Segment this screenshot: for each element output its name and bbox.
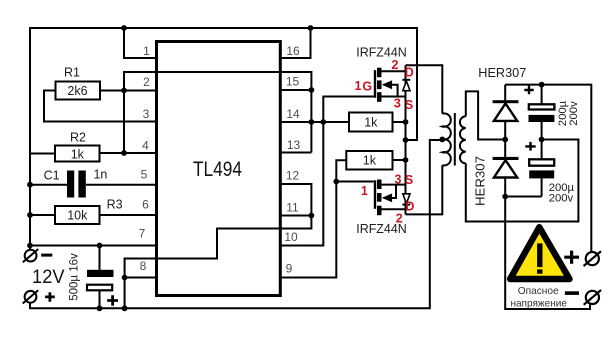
- junction gate wire Q1 on pin14 wire: [320, 119, 326, 125]
- junction pin14: [309, 119, 315, 125]
- resistor R4 1k gate of Q1: [349, 113, 393, 132]
- wire C1 right lead to pin5: [86, 184, 157, 186]
- svg-text:7: 7: [139, 227, 146, 241]
- wire Q2 source lead: [382, 184, 406, 186]
- junction pin1 riser on minus rail: [121, 25, 127, 31]
- wire gate lead of Q2: [336, 181, 374, 183]
- wire R2 left lead to minus rail: [30, 153, 55, 155]
- junction C3 top on plus output: [539, 82, 545, 88]
- diode D1 HER307: [493, 100, 519, 103]
- svg-text:3: 3: [394, 97, 401, 111]
- svg-text:S: S: [405, 173, 413, 187]
- transformer T1 primary winding: [442, 113, 451, 165]
- transformer T1 core: [454, 113, 456, 166]
- transistor Q1 channel bars: [377, 68, 382, 78]
- wire rectifier column and minus output: [505, 85, 590, 309]
- wire minus rail loop (left rail, top rail, drop to source line): [30, 28, 417, 250]
- svg-text:14: 14: [286, 107, 300, 121]
- junction pin8 wire: [122, 275, 128, 281]
- svg-text:Опасное: Опасное: [518, 285, 559, 297]
- wire Q2 drain jog to transformer primary bottom: [406, 165, 443, 214]
- wire drain-source column of Q1,Q2 with body diodes: [405, 65, 407, 214]
- svg-text:R2: R2: [70, 130, 86, 144]
- svg-text:S: S: [405, 98, 413, 112]
- wire R3 left lead: [30, 214, 55, 216]
- plus sign of C4: [525, 142, 535, 151]
- junction pin15: [309, 87, 315, 93]
- svg-text:1k: 1k: [363, 154, 377, 168]
- svg-text:10k: 10k: [67, 209, 88, 223]
- resistor R3 10k: [55, 206, 100, 224]
- wire pin2 node over IC to pins 15,14,13: [124, 72, 311, 153]
- svg-text:13: 13: [287, 138, 301, 152]
- terminal output plus: [584, 251, 601, 266]
- wire Q1 substrate arrow lead: [391, 85, 398, 97]
- wire plus output: [505, 85, 591, 252]
- wire C1 left lead: [30, 184, 67, 186]
- capacitor C2 500u 16v electrolytic plates: [87, 270, 114, 277]
- svg-text:8: 8: [140, 259, 147, 273]
- wire pin2 node down to pin4 node: [123, 91, 125, 154]
- junction minus rail tap on source line: [403, 137, 409, 143]
- transistor Q2 IRFZ44N gate bar: [374, 180, 376, 209]
- wire R3 right lead to pin6: [100, 214, 157, 216]
- svg-text:2: 2: [396, 211, 403, 225]
- capacitor C4 200u 200v plates: [529, 159, 554, 165]
- svg-text:G: G: [362, 79, 372, 93]
- IC U1 TL494 box: [157, 42, 281, 296]
- svg-text:12: 12: [286, 169, 300, 183]
- junction T1 primary center tap: [439, 137, 445, 143]
- wire Q1 drain lead: [382, 70, 406, 72]
- svg-text:C1: C1: [44, 169, 60, 183]
- wire pin9 up to R5 left lead: [280, 160, 346, 277]
- svg-text:2: 2: [392, 58, 399, 72]
- wire pin2 stub with R1 right lead: [100, 90, 157, 92]
- junction node pin4 R2: [121, 150, 127, 156]
- warning sign triangle: [510, 227, 569, 279]
- junction D2 anode minus output: [502, 194, 508, 200]
- transistor Q1 IRFZ44N gate bar: [374, 70, 376, 98]
- svg-text:200µ: 200µ: [557, 100, 569, 126]
- wire pin13 stub: [280, 152, 311, 154]
- junction R3 on minus rail: [27, 212, 33, 218]
- transistor Q2 channel bars: [377, 180, 382, 190]
- svg-text:500µ 16v: 500µ 16v: [69, 253, 81, 301]
- svg-text:3: 3: [143, 107, 150, 121]
- junction pin7 on minus rail: [27, 243, 33, 249]
- svg-text:200v: 200v: [549, 192, 574, 204]
- wire pin8 stub: [125, 277, 157, 279]
- junction pin8 riser on plus rail: [122, 305, 128, 311]
- svg-text:2k6: 2k6: [67, 84, 87, 98]
- junction R5 on source line: [403, 157, 409, 163]
- svg-text:1: 1: [361, 184, 368, 198]
- svg-text:D: D: [405, 65, 414, 79]
- capacitor C1 1n plates: [67, 171, 74, 198]
- terminal input minus: [23, 249, 39, 262]
- wire C2 bottom lead: [99, 291, 101, 309]
- wire pin7 to minus rail: [30, 245, 157, 247]
- diode D2 HER307: [493, 157, 519, 160]
- terminal input plus: [23, 290, 39, 303]
- wire R4 right lead to source line: [393, 121, 406, 123]
- junction C3 C4 midpoint: [539, 137, 545, 143]
- junction pin11 pin12: [309, 213, 315, 219]
- wire pin8 node to plus rail and over IC to pins 12,11: [125, 184, 312, 308]
- svg-text:6: 6: [142, 198, 149, 212]
- junction D1 anode secondary top: [502, 137, 508, 143]
- wire Q1 source lead: [382, 96, 406, 98]
- svg-text:11: 11: [286, 201, 299, 215]
- svg-text:5: 5: [141, 168, 148, 182]
- svg-text:R1: R1: [64, 65, 80, 79]
- svg-text:9: 9: [286, 262, 293, 276]
- svg-text:200v: 200v: [568, 101, 580, 126]
- diode body of Q2: [402, 204, 410, 206]
- svg-text:4: 4: [142, 139, 149, 153]
- svg-text:12V: 12V: [32, 266, 65, 288]
- svg-text:IRFZ44N: IRFZ44N: [356, 46, 407, 60]
- wire R5 right lead to source line: [393, 159, 406, 161]
- terminal output minus: [584, 290, 601, 305]
- transistor Q1 substrate arrow: [382, 80, 392, 89]
- wire secondary bottom around to capacitor midpoint: [466, 140, 579, 222]
- svg-text:1n: 1n: [93, 168, 107, 182]
- junction C2 top on pin7 wire: [97, 243, 103, 249]
- junction R4 on source line: [403, 119, 409, 125]
- resistor R2 1k: [55, 146, 100, 162]
- plus sign of C2: [107, 295, 118, 306]
- wire C2 top lead: [99, 246, 101, 270]
- svg-text:1: 1: [143, 44, 150, 58]
- transformer T1 secondary winding: [460, 116, 466, 163]
- wire R1 left lead to pin3: [44, 91, 157, 122]
- wire pin10 to gate of Q1: [280, 97, 374, 246]
- svg-text:TL494: TL494: [193, 158, 242, 181]
- svg-text:15: 15: [286, 75, 300, 89]
- wire pin15 stub: [280, 89, 311, 91]
- svg-text:1k: 1k: [71, 147, 85, 161]
- svg-text:10: 10: [284, 230, 298, 244]
- transistor Q2 substrate arrow: [382, 193, 392, 202]
- wire Q1 drain jog to transformer primary top: [406, 65, 443, 113]
- wire plus rail from terminal to transformer center tap: [30, 140, 442, 308]
- svg-text:напряжение: напряжение: [510, 298, 567, 310]
- svg-text:1k: 1k: [364, 116, 378, 130]
- wire pin14 to gate resistor R4: [280, 121, 349, 123]
- diode body of Q1: [402, 79, 410, 81]
- capacitor C3 200u 200v plates: [529, 104, 555, 109]
- wire pin1 to top rail: [124, 28, 157, 58]
- resistor R1 2k6: [56, 82, 101, 100]
- plus sign of C3: [524, 86, 533, 95]
- svg-text:R3: R3: [107, 198, 123, 212]
- wire secondary top to D1 anode: [466, 91, 505, 139]
- svg-text:16: 16: [286, 44, 300, 58]
- wire Q2 substrate arrow lead: [391, 185, 397, 198]
- wire pin16 to top rail: [280, 28, 310, 58]
- svg-text:3: 3: [395, 172, 402, 186]
- wire Q2 drain lead: [382, 208, 406, 210]
- svg-text:1: 1: [355, 79, 362, 93]
- wire pin11 stub: [280, 215, 311, 217]
- junction pin16 riser on minus rail: [308, 25, 314, 31]
- junction C1 on minus rail: [27, 182, 33, 188]
- junction C2 bottom on plus rail: [97, 305, 103, 311]
- svg-text:HER307: HER307: [478, 66, 526, 80]
- svg-text:HER307: HER307: [473, 156, 488, 206]
- wire C3 leads and midpoint: [505, 85, 541, 197]
- resistor R5 1k gate of Q2: [346, 151, 392, 170]
- svg-text:D: D: [405, 200, 414, 214]
- wire pin4 stub with R2 right lead: [100, 152, 157, 154]
- junction node pin2 R1: [121, 88, 127, 94]
- svg-text:2: 2: [143, 75, 150, 89]
- junction gate wire Q2 on pin9 riser: [333, 179, 339, 185]
